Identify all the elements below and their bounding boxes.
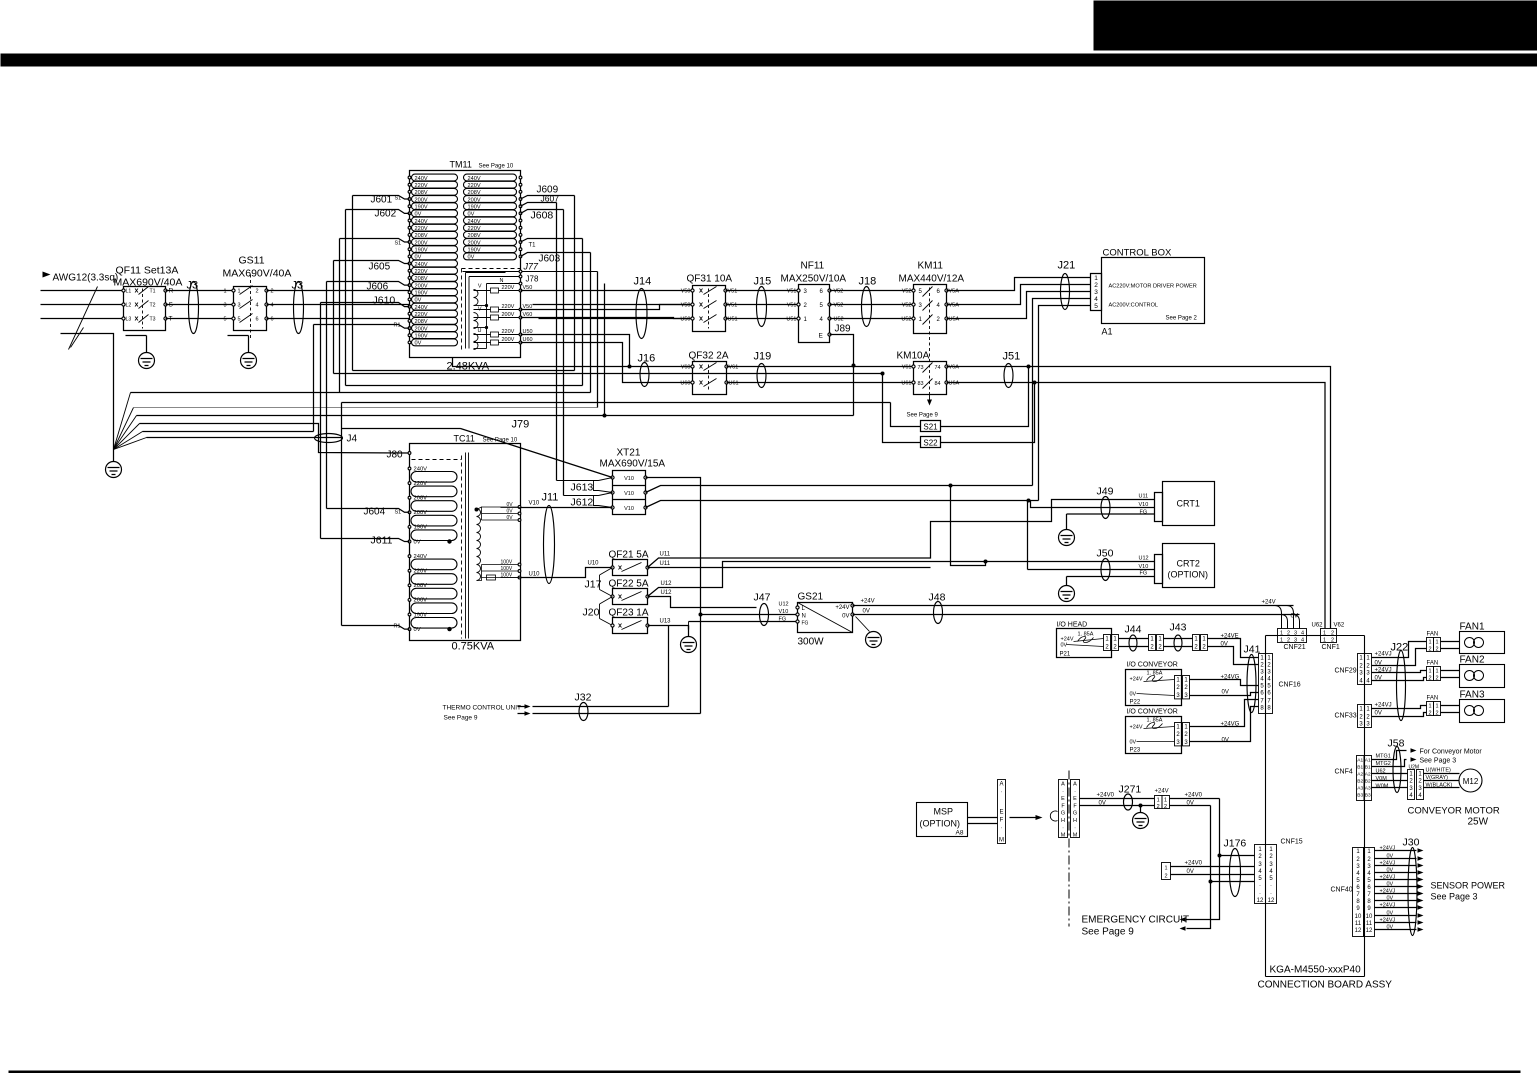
svg-text:+24VJ: +24VJ — [1380, 918, 1396, 924]
svg-text:3: 3 — [1094, 289, 1098, 296]
svg-text:4: 4 — [1409, 793, 1413, 799]
svg-text:J11: J11 — [542, 492, 559, 504]
bus wire y384 — [346, 385, 583, 387]
bus wire y392 to J603 riser — [131, 392, 591, 394]
svg-text:J604: J604 — [364, 507, 386, 518]
svg-text:2: 2 — [1418, 779, 1422, 785]
svg-text:3: 3 — [1176, 693, 1180, 699]
svg-text:5: 5 — [1356, 878, 1360, 884]
svg-text:6: 6 — [256, 317, 259, 323]
svg-text:FAN3: FAN3 — [1460, 690, 1485, 701]
svg-text:E: E — [999, 810, 1003, 816]
svg-text:8: 8 — [1356, 899, 1360, 905]
svg-text:CONTROL BOX: CONTROL BOX — [1103, 248, 1172, 259]
svg-text:3: 3 — [223, 303, 226, 309]
svg-text:U61: U61 — [729, 381, 739, 387]
svg-text:2: 2 — [1267, 663, 1271, 669]
svg-text:3: 3 — [1418, 786, 1422, 792]
svg-text:TC11: TC11 — [454, 434, 475, 444]
svg-text:CRT1: CRT1 — [1177, 499, 1200, 509]
svg-text:1: 1 — [1435, 669, 1438, 675]
svg-text:4: 4 — [1356, 871, 1360, 877]
svg-text:V10: V10 — [529, 501, 540, 507]
emergency lower pair — [1162, 863, 1171, 880]
svg-text:0V: 0V — [1291, 614, 1298, 620]
svg-text:2: 2 — [1435, 676, 1438, 682]
svg-text:J89: J89 — [835, 324, 852, 335]
svg-text:W0M: W0M — [1376, 784, 1389, 790]
TC11 flag J80 — [408, 452, 411, 455]
svg-text:0V: 0V — [1375, 711, 1382, 717]
svg-text:0V: 0V — [1387, 925, 1394, 931]
thermo wires — [668, 626, 670, 707]
door switch S22 — [921, 437, 941, 448]
svg-text:0V: 0V — [1130, 692, 1137, 698]
connector CNF33 — [1358, 705, 1365, 728]
svg-text:0V: 0V — [1130, 740, 1137, 746]
bus wire y365 to QF32 row — [453, 358, 693, 367]
TM11 tap flag J606 — [327, 282, 410, 286]
ground CRT1 FG — [1066, 514, 1068, 530]
svg-text:CNF16: CNF16 — [1279, 682, 1301, 689]
svg-text:See Page 9: See Page 9 — [1082, 927, 1135, 938]
svg-text:2: 2 — [1366, 664, 1370, 670]
svg-text:B2: B2 — [1365, 779, 1371, 785]
svg-text:J43: J43 — [1170, 622, 1187, 634]
TC11 junction dots — [447, 539, 451, 543]
svg-text:3: 3 — [1359, 671, 1363, 677]
bus wire y402 to S21 — [342, 402, 891, 404]
svg-text:0V: 0V — [1061, 643, 1068, 649]
svg-text:CNF15: CNF15 — [1281, 839, 1303, 846]
TM11 secondary inner wires — [466, 272, 506, 274]
TM11 primary winding rows left — [412, 174, 458, 181]
svg-text:2: 2 — [1157, 804, 1160, 810]
svg-text:J44: J44 — [1125, 624, 1142, 636]
svg-text:1: 1 — [1184, 677, 1188, 683]
svg-text:2: 2 — [271, 289, 274, 295]
svg-text:2: 2 — [256, 289, 259, 295]
svg-text:220V: 220V — [502, 285, 515, 291]
TC11 secondary coil — [477, 509, 481, 517]
DIN strip pair left — [1059, 780, 1068, 838]
svg-text:FG: FG — [802, 621, 809, 627]
svg-text:·: · — [1259, 891, 1261, 897]
svg-text:2: 2 — [1176, 685, 1180, 691]
svg-text:7: 7 — [1267, 699, 1271, 705]
svg-text:CONVEYOR MOTOR: CONVEYOR MOTOR — [1408, 806, 1500, 817]
svg-text:V52: V52 — [902, 289, 912, 295]
svg-text:+24V: +24V — [1130, 725, 1143, 731]
svg-text:XT21: XT21 — [617, 448, 641, 459]
svg-text:4: 4 — [1094, 296, 1098, 303]
TM11 right tap T1 — [521, 239, 583, 243]
svg-text:3: 3 — [1184, 740, 1188, 746]
svg-text:S1: S1 — [395, 510, 402, 516]
svg-text:1: 1 — [1428, 669, 1431, 675]
cable slash marks — [69, 287, 98, 350]
svg-text:4: 4 — [1418, 793, 1422, 799]
TM11 secondary coil U — [474, 334, 479, 342]
TM11 tap flag S1 row10 — [340, 239, 410, 243]
svg-text:MSP: MSP — [934, 807, 954, 817]
svg-text:100V: 100V — [501, 566, 513, 572]
bus wire y430 — [143, 431, 314, 433]
TM11 control secondary dashed box — [462, 268, 521, 270]
svg-text:4: 4 — [256, 303, 259, 309]
bus wire y370 — [353, 370, 575, 372]
svg-text:1: 1 — [1280, 631, 1283, 637]
svg-text:AC200V:CONTROL: AC200V:CONTROL — [1109, 303, 1159, 309]
earth bus wire y415 to J89 — [137, 415, 854, 417]
svg-text:3: 3 — [1294, 631, 1297, 637]
bottom border line — [9, 1071, 1521, 1074]
svg-text:2: 2 — [1260, 663, 1264, 669]
svg-text:0V: 0V — [1387, 882, 1394, 888]
svg-text:1: 1 — [1184, 724, 1188, 730]
svg-text:5: 5 — [1258, 876, 1262, 882]
svg-text:4: 4 — [1301, 631, 1304, 637]
svg-text:FG: FG — [1140, 571, 1148, 577]
svg-text:KGA-M4550-xxxP40: KGA-M4550-xxxP40 — [1270, 965, 1362, 976]
svg-text:U61: U61 — [901, 381, 911, 387]
ground under U13 — [688, 626, 690, 637]
svg-text:TM11: TM11 — [450, 160, 472, 170]
riser emergency 1 — [1187, 799, 1220, 920]
svg-text:+24V0: +24V0 — [1185, 861, 1203, 867]
svg-text:M: M — [999, 838, 1004, 844]
svg-text:U52: U52 — [834, 317, 844, 323]
svg-text:1: 1 — [919, 317, 923, 323]
svg-text:·: · — [1062, 825, 1064, 831]
svg-text:H: H — [1061, 818, 1065, 824]
svg-text:U51: U51 — [786, 317, 796, 323]
svg-text:V51: V51 — [728, 289, 738, 295]
right pair — [1193, 635, 1200, 651]
wire N 4th line — [61, 334, 114, 450]
svg-text:12: 12 — [1366, 928, 1373, 934]
svg-text:2: 2 — [1176, 732, 1180, 738]
svg-text:U62: U62 — [1312, 623, 1324, 629]
svg-text:J15: J15 — [754, 276, 772, 288]
svg-text:U5A: U5A — [949, 317, 960, 323]
svg-text:J607: J607 — [541, 194, 560, 204]
svg-text:T1: T1 — [150, 289, 156, 295]
svg-text:V6A: V6A — [949, 365, 960, 371]
svg-text:FAN: FAN — [1427, 661, 1439, 667]
keying notch — [1050, 811, 1057, 821]
TM11 tap flag J610 — [321, 303, 410, 307]
svg-text:1: 1 — [1435, 640, 1438, 646]
svg-text:V5A: V5A — [949, 289, 960, 295]
svg-text:J49: J49 — [1097, 486, 1114, 498]
wire J79 diagonal — [342, 428, 461, 430]
svg-text:0V: 0V — [1187, 869, 1194, 875]
svg-text:6: 6 — [1356, 885, 1360, 891]
svg-text:FG: FG — [779, 617, 787, 623]
svg-text:V10: V10 — [624, 506, 634, 512]
svg-text:J271: J271 — [1119, 784, 1142, 796]
svg-text:3: 3 — [1367, 864, 1371, 870]
svg-text:2: 2 — [804, 303, 808, 309]
svg-text:2: 2 — [1331, 631, 1334, 637]
svg-text:220V: 220V — [502, 304, 515, 310]
svg-text:NF11: NF11 — [801, 261, 825, 272]
svg-text:0V: 0V — [1222, 738, 1229, 744]
DIN strip pair right — [1071, 780, 1080, 838]
svg-text:0V: 0V — [507, 515, 514, 521]
bus wire y422 to TC11 — [140, 424, 410, 454]
svg-text:J78: J78 — [526, 275, 539, 284]
svg-text:U12: U12 — [661, 590, 673, 596]
connector J4 — [315, 434, 343, 443]
svg-text:FAN: FAN — [1427, 696, 1439, 702]
svg-text:F: F — [1073, 803, 1077, 809]
svg-text:J14: J14 — [634, 276, 652, 288]
svg-text:11: 11 — [1366, 921, 1373, 927]
svg-text:U6A: U6A — [949, 381, 960, 387]
svg-text:3: 3 — [1176, 740, 1180, 746]
star node earth bundle — [114, 393, 131, 450]
svg-text:G: G — [1073, 811, 1077, 817]
junction and ground J271 — [1139, 804, 1143, 808]
wires KM11 to control box — [947, 278, 1091, 291]
svg-text:25W: 25W — [1468, 817, 1489, 828]
svg-text:E: E — [1073, 796, 1077, 802]
svg-text:2: 2 — [1194, 645, 1198, 651]
svg-text:1: 1 — [1194, 637, 1198, 643]
svg-text:·: · — [1074, 789, 1076, 795]
svg-text:2: 2 — [1164, 804, 1167, 810]
ground below QF11 — [126, 335, 147, 337]
svg-text:V52: V52 — [834, 303, 844, 309]
connector CNF4 — [1357, 756, 1365, 801]
svg-text:J20: J20 — [583, 607, 600, 619]
svg-text:A1: A1 — [1365, 758, 1371, 764]
svg-text:See Page 2: See Page 2 — [1166, 316, 1198, 322]
svg-text:V10: V10 — [624, 476, 634, 482]
svg-text:300W: 300W — [798, 637, 825, 648]
svg-text:1: 1 — [1105, 637, 1109, 643]
svg-text:0V: 0V — [1222, 690, 1229, 696]
svg-text:AWG12(3.3sq): AWG12(3.3sq) — [53, 273, 119, 284]
svg-text:See Page 3: See Page 3 — [1431, 892, 1478, 902]
svg-text:1: 1 — [1202, 637, 1206, 643]
svg-text:1: 1 — [1258, 847, 1262, 853]
wire V10 riser continues to thermo — [700, 615, 702, 714]
svg-text:1: 1 — [1435, 704, 1438, 710]
svg-text:2: 2 — [1164, 874, 1167, 880]
TM11 right tap J609 — [521, 196, 575, 200]
svg-text:S22: S22 — [923, 439, 938, 448]
svg-text:8: 8 — [1367, 899, 1371, 905]
svg-text:+24V0: +24V0 — [1185, 793, 1203, 799]
svg-text:U10: U10 — [529, 572, 541, 578]
TC11 core lines — [461, 456, 463, 639]
svg-text:A: A — [999, 782, 1003, 788]
CRT1 box — [1163, 482, 1215, 526]
svg-text:U60: U60 — [680, 381, 690, 387]
svg-text:B3: B3 — [1357, 793, 1363, 799]
svg-text:200V: 200V — [502, 337, 515, 343]
svg-text:J47: J47 — [754, 592, 771, 604]
svg-text:See Page 10: See Page 10 — [483, 438, 518, 444]
svg-text:P21: P21 — [1060, 652, 1071, 658]
svg-text:MAX690V/40A: MAX690V/40A — [223, 268, 292, 280]
svg-text:E: E — [1061, 796, 1065, 802]
svg-text:3: 3 — [1356, 864, 1360, 870]
TM11 tap flag R1 row22 — [314, 325, 410, 329]
middle pair — [1149, 635, 1156, 651]
svg-text:0V: 0V — [1387, 911, 1394, 917]
svg-text:+24V0: +24V0 — [1097, 793, 1115, 799]
svg-text:CNF29: CNF29 — [1335, 668, 1357, 675]
svg-text:QF23 1A: QF23 1A — [609, 608, 649, 619]
svg-text:+24VJ: +24VJ — [1375, 652, 1392, 658]
jog secondary U50 to J16 row — [521, 335, 630, 367]
svg-text:2: 2 — [1184, 732, 1188, 738]
ground CRT2 FG — [1066, 577, 1068, 586]
ground below GS11 — [228, 335, 249, 337]
svg-text:U(WHITE): U(WHITE) — [1426, 768, 1452, 774]
svg-text:V50: V50 — [681, 303, 691, 309]
svg-text:6: 6 — [1367, 885, 1371, 891]
wire FG into GS21 — [689, 621, 798, 623]
svg-text:See Page 9: See Page 9 — [444, 715, 478, 722]
svg-text:5: 5 — [223, 317, 226, 323]
svg-text:8: 8 — [1260, 706, 1264, 712]
svg-text:AC220V:MOTOR DRIVER POWER: AC220V:MOTOR DRIVER POWER — [1109, 284, 1197, 290]
svg-text:T2: T2 — [150, 303, 156, 309]
svg-text:1: 1 — [1366, 656, 1370, 662]
svg-text:2: 2 — [1258, 854, 1262, 860]
svg-text:10: 10 — [1355, 914, 1362, 920]
svg-text:J32: J32 — [575, 692, 592, 704]
svg-text:J80: J80 — [387, 450, 404, 461]
svg-text:A8: A8 — [956, 830, 964, 837]
XT21 out pin2 bus y485 — [646, 486, 1033, 493]
svg-text:4: 4 — [937, 303, 941, 309]
svg-text:4: 4 — [1258, 869, 1262, 875]
svg-text:4: 4 — [271, 303, 274, 309]
svg-text:+24V: +24V — [1155, 789, 1169, 795]
svg-text:QF21 5A: QF21 5A — [609, 550, 649, 561]
svg-text:U: U — [478, 328, 482, 334]
wires TM11 to J14 — [521, 290, 693, 292]
wire L2 phase S — [41, 304, 124, 306]
svg-text:3: 3 — [1258, 862, 1262, 868]
svg-text:2: 2 — [937, 317, 941, 323]
svg-text:2: 2 — [1202, 645, 1206, 651]
svg-text:3: 3 — [1366, 671, 1370, 677]
ground at star node — [113, 450, 115, 462]
svg-text:M: M — [1061, 833, 1066, 839]
svg-text:A: A — [1073, 782, 1077, 788]
MSP box — [917, 803, 968, 837]
svg-text:J41: J41 — [1244, 644, 1261, 656]
svg-text:+24VJ: +24VJ — [1380, 846, 1396, 852]
svg-text:2: 2 — [1184, 685, 1188, 691]
svg-text:5: 5 — [1367, 878, 1371, 884]
connector CNF21 — [1278, 629, 1307, 636]
svg-text:12: 12 — [1355, 928, 1362, 934]
TC11 flag J611 — [321, 539, 410, 542]
svg-text:(OPTION): (OPTION) — [920, 819, 961, 829]
svg-text:U12: U12 — [1139, 556, 1149, 562]
wires QF31 to NF11 — [726, 290, 799, 292]
svg-text:S21: S21 — [923, 423, 938, 432]
wires to J176 — [1171, 866, 1255, 868]
riser emergency 2 — [1187, 806, 1211, 929]
svg-text:B1: B1 — [1365, 765, 1371, 771]
svg-text:0V: 0V — [468, 255, 475, 261]
wire L1 phase R — [41, 290, 124, 292]
svg-text:4: 4 — [820, 317, 824, 323]
svg-text:1: 1 — [1366, 707, 1370, 713]
svg-text:J176: J176 — [1224, 838, 1247, 850]
svg-text:EMERGENCY CIRCUIT: EMERGENCY CIRCUIT — [1082, 915, 1190, 926]
svg-text:0V: 0V — [1387, 854, 1394, 860]
svg-text:A1: A1 — [1357, 758, 1363, 764]
TM11 secondary coil V1 — [474, 290, 479, 298]
svg-text:1: 1 — [1164, 866, 1167, 872]
svg-text:1: 1 — [1359, 656, 1363, 662]
svg-text:CNF1: CNF1 — [1322, 644, 1340, 651]
svg-text:2: 2 — [1356, 857, 1360, 863]
svg-text:2: 2 — [1366, 715, 1370, 721]
QF23 output U13 to ground — [648, 626, 689, 630]
svg-text:1: 1 — [1158, 637, 1162, 643]
svg-text:+24V: +24V — [1130, 677, 1143, 683]
svg-text:1: 1 — [1418, 772, 1422, 778]
TC11 secondary taps 100V — [482, 564, 521, 566]
svg-text:J608: J608 — [531, 210, 554, 222]
svg-text:2: 2 — [1435, 647, 1438, 653]
conveyor motor M12 — [1459, 769, 1482, 792]
svg-text:J611: J611 — [371, 535, 393, 547]
svg-text:CNF40: CNF40 — [1331, 887, 1353, 894]
svg-text:M12: M12 — [1463, 777, 1479, 786]
svg-text:0V: 0V — [415, 341, 422, 347]
CRT2 box — [1163, 544, 1215, 588]
svg-text:V50: V50 — [681, 289, 691, 295]
svg-text:I/O CONVEYOR: I/O CONVEYOR — [1127, 662, 1178, 669]
svg-text:0V: 0V — [842, 614, 849, 620]
TM11 tap flag J601 — [353, 196, 410, 200]
svg-text:9: 9 — [1367, 906, 1371, 912]
svg-text:·: · — [1259, 883, 1261, 889]
svg-text:See Page 9: See Page 9 — [907, 413, 939, 419]
svg-text:KM10A: KM10A — [897, 351, 930, 362]
svg-text:8: 8 — [1267, 706, 1271, 712]
wires KM10A through J51 to CNF1 — [947, 367, 1331, 629]
wires +24V 0V to J48 and CNF21 — [853, 605, 1294, 607]
svg-text:FAN: FAN — [1427, 632, 1439, 638]
svg-text:T3: T3 — [150, 317, 156, 323]
svg-text:5: 5 — [1260, 684, 1264, 690]
connector CNF1 — [1321, 629, 1337, 636]
door switch S21 — [921, 421, 941, 432]
XT21 out pin3 bus y500 — [646, 501, 1039, 508]
svg-text:1: 1 — [1269, 847, 1273, 853]
svg-text:J77: J77 — [523, 262, 540, 272]
svg-text:84: 84 — [935, 381, 941, 387]
svg-text:2: 2 — [1359, 664, 1363, 670]
svg-text:V10: V10 — [624, 491, 634, 497]
svg-text:12: 12 — [1268, 898, 1275, 904]
svg-text:3: 3 — [1184, 693, 1188, 699]
svg-text:1: 1 — [223, 289, 226, 295]
